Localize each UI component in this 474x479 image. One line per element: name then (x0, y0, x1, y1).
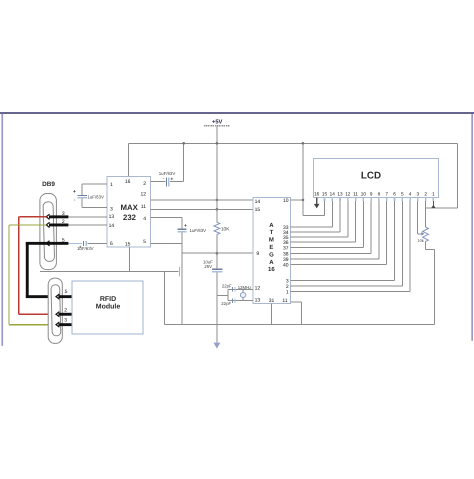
svg-text:10K: 10K (221, 226, 230, 232)
svg-text:E: E (269, 244, 273, 251)
svg-text:12: 12 (345, 192, 351, 197)
svg-text:1uF/63V: 1uF/63V (159, 171, 176, 176)
svg-text:3: 3 (110, 206, 113, 212)
svg-text:3: 3 (64, 317, 67, 323)
svg-text:DB9: DB9 (42, 181, 55, 188)
svg-text:Module: Module (96, 303, 121, 311)
svg-text:1uF/63V: 1uF/63V (190, 228, 207, 233)
svg-text:15: 15 (255, 207, 261, 213)
svg-text:10k: 10k (417, 238, 423, 243)
svg-text:3: 3 (417, 192, 420, 197)
svg-text:8: 8 (378, 192, 381, 197)
svg-text:25V: 25V (204, 264, 212, 269)
svg-text:5: 5 (401, 192, 404, 197)
svg-text:12: 12 (140, 192, 146, 198)
svg-text:T: T (270, 229, 274, 236)
svg-text:1: 1 (110, 182, 113, 188)
svg-text:15: 15 (322, 192, 328, 197)
svg-text:40: 40 (283, 262, 289, 268)
svg-text:A: A (269, 259, 274, 266)
svg-text:1uF/63V: 1uF/63V (77, 246, 94, 251)
svg-text:12MHz: 12MHz (238, 285, 252, 290)
svg-text:MAX: MAX (121, 203, 139, 212)
svg-text:22pF: 22pF (221, 301, 231, 306)
svg-text:14: 14 (109, 223, 115, 229)
svg-text:12: 12 (255, 285, 261, 291)
svg-text:1: 1 (286, 290, 289, 296)
svg-text:A: A (269, 222, 274, 229)
svg-text:14: 14 (330, 192, 336, 197)
svg-text:4: 4 (409, 192, 412, 197)
svg-text:+: + (184, 223, 187, 229)
svg-text:5: 5 (65, 289, 68, 295)
svg-text:5: 5 (143, 239, 146, 245)
svg-text:7: 7 (385, 192, 388, 197)
svg-text:RFID: RFID (100, 296, 116, 303)
svg-text:13: 13 (337, 192, 343, 197)
svg-text:2: 2 (64, 307, 67, 313)
svg-text:10: 10 (283, 198, 289, 204)
svg-text:11: 11 (282, 298, 287, 304)
svg-text:1uF/63V: 1uF/63V (87, 194, 104, 199)
svg-text:22pF: 22pF (222, 284, 232, 289)
svg-text:4: 4 (143, 216, 146, 222)
svg-text:+5V: +5V (212, 119, 223, 125)
svg-text:M: M (269, 237, 274, 244)
svg-text:16: 16 (314, 192, 320, 197)
svg-text:10: 10 (361, 192, 367, 197)
svg-text:2: 2 (424, 192, 427, 197)
svg-text:11: 11 (353, 192, 358, 197)
svg-text:G: G (269, 251, 274, 258)
svg-text:16: 16 (125, 179, 131, 185)
svg-text:9: 9 (256, 251, 259, 257)
svg-text:13: 13 (109, 214, 115, 220)
svg-text:13: 13 (255, 298, 261, 304)
svg-text:6: 6 (110, 241, 113, 247)
svg-text:11: 11 (141, 204, 146, 210)
svg-text:-: - (74, 197, 76, 203)
svg-text:LCD: LCD (361, 170, 381, 181)
svg-text:15: 15 (125, 241, 131, 247)
svg-text:+: + (170, 176, 173, 182)
svg-text:31: 31 (269, 298, 275, 304)
svg-text:+: + (73, 189, 76, 195)
svg-text:14: 14 (255, 199, 261, 205)
svg-text:16: 16 (268, 266, 275, 273)
svg-text:232: 232 (123, 213, 137, 222)
svg-text:9: 9 (370, 192, 373, 197)
svg-text:1: 1 (432, 192, 435, 197)
svg-text:6: 6 (393, 192, 396, 197)
svg-text:2: 2 (143, 181, 146, 187)
